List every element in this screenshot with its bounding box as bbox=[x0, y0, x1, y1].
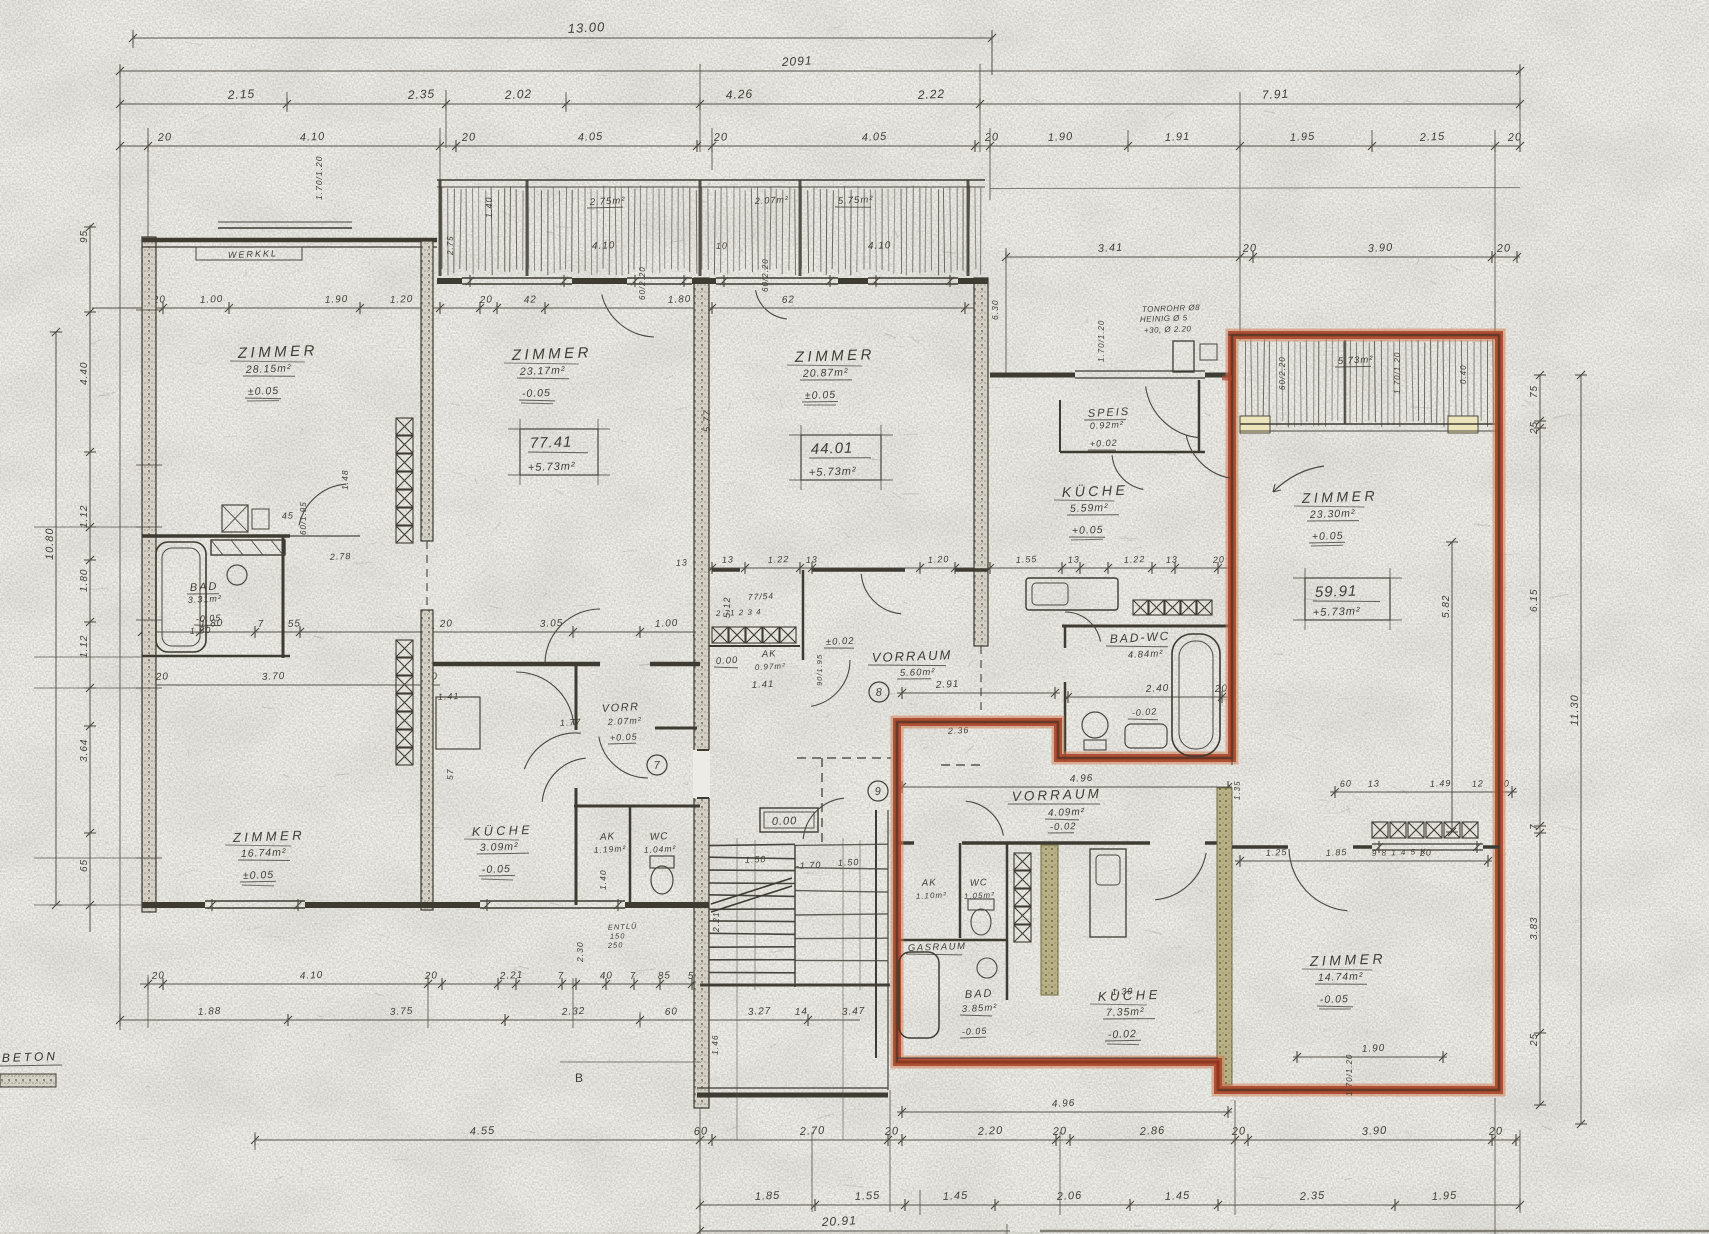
svg-text:1.50: 1.50 bbox=[745, 854, 767, 865]
svg-text:20: 20 bbox=[155, 671, 170, 683]
svg-text:1.90: 1.90 bbox=[325, 294, 349, 306]
svg-text:2.15: 2.15 bbox=[1419, 131, 1446, 144]
olive wall between BAD and KUECHE bbox=[1041, 845, 1058, 995]
olive wall left of bottom ZIMMER bbox=[1217, 788, 1232, 1085]
interior dim row y690 (2.91) bbox=[897, 692, 1060, 694]
svg-text:1.00: 1.00 bbox=[655, 618, 679, 630]
wall x975 vertical bbox=[974, 278, 988, 646]
dashed removed walls bbox=[797, 757, 891, 759]
svg-text:+30, Ø 2.20: +30, Ø 2.20 bbox=[1144, 324, 1192, 335]
svg-text:6.15: 6.15 bbox=[1529, 589, 1540, 612]
svg-text:±0.05: ±0.05 bbox=[248, 385, 280, 398]
red top small jog bbox=[1222, 376, 1232, 381]
area box 77.41 bbox=[520, 429, 598, 475]
svg-text:-0.05: -0.05 bbox=[196, 613, 222, 624]
svg-text:SPEIS: SPEIS bbox=[1088, 406, 1131, 420]
stairwell bottom wall bbox=[697, 1093, 888, 1098]
svg-text:1.55: 1.55 bbox=[855, 1190, 881, 1203]
svg-text:1.50: 1.50 bbox=[838, 857, 860, 868]
kitchen counter right KUECHE bbox=[1026, 578, 1118, 610]
svg-text:-0.05: -0.05 bbox=[522, 387, 551, 400]
svg-text:±0.02: ±0.02 bbox=[826, 636, 855, 648]
wardrobe middle left bbox=[436, 697, 480, 749]
VORRAUM lower wall y843 with doors bbox=[897, 841, 914, 845]
staircase treads left flight bbox=[709, 844, 795, 845]
0.00 level box bbox=[760, 808, 818, 832]
svg-text:2.21: 2.21 bbox=[711, 911, 721, 933]
left wall window ticks bbox=[136, 309, 162, 311]
bottom overall 20.91 bbox=[700, 1230, 1010, 1232]
svg-text:1.19m²: 1.19m² bbox=[594, 843, 627, 855]
svg-text:1.80: 1.80 bbox=[79, 569, 90, 592]
svg-text:3.05: 3.05 bbox=[540, 618, 564, 630]
svg-text:13: 13 bbox=[722, 554, 735, 565]
circled number 9 bbox=[868, 781, 888, 801]
svg-text:13.00: 13.00 bbox=[567, 19, 605, 36]
area box 59.91 bbox=[1305, 578, 1390, 620]
svg-text:BETON: BETON bbox=[2, 1049, 59, 1065]
svg-text:2.78: 2.78 bbox=[329, 551, 352, 562]
stairwell wall x697 vertical bbox=[694, 278, 709, 1108]
svg-text:6.30: 6.30 bbox=[990, 299, 1000, 320]
left lower apartment partition x576 bbox=[575, 664, 578, 730]
kitchen counters middle flat bbox=[1090, 849, 1126, 937]
top dimension line 13.00 bbox=[133, 37, 992, 39]
left extension lines bbox=[34, 526, 142, 528]
svg-text:3.90: 3.90 bbox=[1362, 1125, 1388, 1138]
svg-text:1.22: 1.22 bbox=[768, 554, 790, 565]
svg-text:1.10m²: 1.10m² bbox=[916, 890, 947, 901]
curved arrow balcony right bbox=[1273, 466, 1324, 492]
svg-text:±0.05: ±0.05 bbox=[805, 389, 837, 402]
staircase construction verticals bbox=[736, 838, 738, 1140]
svg-text:40: 40 bbox=[600, 970, 614, 982]
svg-text:5.82: 5.82 bbox=[1441, 595, 1452, 618]
top dimension line 20.91 bbox=[120, 70, 1520, 72]
window top-left with closet WERKKL bbox=[218, 227, 352, 229]
svg-text:-0.02: -0.02 bbox=[1131, 706, 1157, 718]
svg-text:VORR: VORR bbox=[602, 701, 640, 715]
svg-text:1.45: 1.45 bbox=[1165, 1190, 1191, 1203]
svg-text:62: 62 bbox=[782, 294, 796, 306]
exterior wall left bbox=[142, 237, 156, 912]
dim 1.90 bottom zimmer bbox=[1293, 1056, 1447, 1058]
svg-text:ZIMMER: ZIMMER bbox=[232, 827, 306, 845]
svg-text:1.95: 1.95 bbox=[1432, 1190, 1458, 1203]
svg-text:95: 95 bbox=[79, 230, 90, 243]
thin wall right of stairs bbox=[875, 810, 877, 1058]
bottom dim row 20 4.10 20 2.21 7 40 7 85 5 bbox=[140, 983, 706, 985]
svg-text:4.55: 4.55 bbox=[470, 1125, 496, 1138]
svg-text:4.10: 4.10 bbox=[592, 240, 616, 252]
chimney rects bbox=[1173, 341, 1194, 372]
svg-text:0.00: 0.00 bbox=[772, 815, 798, 828]
dim 2.40 in BAD-WC bbox=[1065, 696, 1228, 698]
svg-text:BAD: BAD bbox=[965, 988, 994, 1001]
svg-text:1.45: 1.45 bbox=[943, 1190, 969, 1203]
svg-text:7: 7 bbox=[558, 971, 565, 982]
balcony top: railing bbox=[437, 179, 985, 181]
svg-text:1.05m²: 1.05m² bbox=[964, 890, 995, 901]
svg-text:20: 20 bbox=[1052, 1125, 1068, 1138]
svg-text:2.15: 2.15 bbox=[226, 87, 255, 102]
kitchen sink left apartment bbox=[211, 540, 285, 555]
svg-text:ZIMMER: ZIMMER bbox=[237, 342, 319, 362]
svg-text:ZIMMER: ZIMMER bbox=[511, 344, 593, 364]
washbasin BAD middle flat bbox=[977, 958, 997, 978]
dim row y861 bottom right bbox=[1235, 860, 1492, 862]
svg-text:1.70/1.20: 1.70/1.20 bbox=[1393, 352, 1402, 394]
svg-text:60/2.20: 60/2.20 bbox=[1278, 356, 1287, 390]
black wall edges over red bbox=[1231, 335, 1233, 765]
svg-text:20: 20 bbox=[479, 294, 494, 306]
top wall mid (under balcony) with windows bbox=[437, 278, 462, 284]
svg-text:2.35: 2.35 bbox=[406, 87, 435, 102]
svg-text:7: 7 bbox=[630, 971, 637, 982]
svg-text:2.20: 2.20 bbox=[977, 1125, 1004, 1138]
svg-text:±0.05: ±0.05 bbox=[243, 869, 275, 882]
bottom dim row 1.85 1.55 1.45 2.06 1.45 2.35 1.95 bbox=[700, 1204, 1520, 1206]
vertical connector lines top bbox=[119, 64, 121, 1030]
bottom dim row 1.88 3.75 2.32 60 3.27 14 3.47 bbox=[120, 1019, 860, 1021]
svg-text:5.73m²: 5.73m² bbox=[1338, 354, 1374, 367]
svg-text:77.41: 77.41 bbox=[530, 434, 573, 452]
svg-text:GASRAUM: GASRAUM bbox=[908, 941, 967, 954]
left dimension line 10.80 bbox=[55, 332, 57, 905]
interior dim row y632 bbox=[142, 631, 700, 633]
circled number 7 bbox=[647, 755, 667, 775]
svg-text:3.90: 3.90 bbox=[1368, 242, 1394, 255]
svg-text:1.41: 1.41 bbox=[438, 691, 460, 702]
radiator rows bbox=[396, 418, 413, 435]
svg-text:90/1.95: 90/1.95 bbox=[815, 654, 824, 686]
svg-text:5.75m²: 5.75m² bbox=[838, 194, 874, 207]
right overall dimension 11.30 bbox=[1580, 375, 1582, 1124]
svg-text:20: 20 bbox=[151, 970, 166, 982]
interior dim row y1110 (4.96) bbox=[897, 1111, 1232, 1113]
BAD left apartment walls bbox=[142, 534, 290, 538]
closet right wall x803 bbox=[802, 570, 805, 660]
svg-text:4.05: 4.05 bbox=[862, 131, 888, 144]
svg-text:1.85: 1.85 bbox=[1326, 847, 1348, 858]
exterior wall top-left bbox=[142, 238, 437, 243]
top dimension row 4.10 4.05 4.05 1.90 1.91 1.95 2.15 bbox=[120, 145, 1520, 147]
svg-text:ZIMMER: ZIMMER bbox=[1301, 487, 1379, 506]
svg-text:AK: AK bbox=[761, 648, 777, 660]
radiator column middle flat bbox=[1014, 853, 1031, 870]
svg-text:65: 65 bbox=[79, 859, 90, 872]
svg-text:57: 57 bbox=[445, 769, 455, 780]
svg-text:20: 20 bbox=[461, 131, 477, 144]
svg-text:2.75: 2.75 bbox=[446, 235, 455, 256]
staircase treads right flight bbox=[795, 844, 888, 845]
svg-text:3.70: 3.70 bbox=[262, 671, 286, 683]
svg-text:HEINIG Ø 5: HEINIG Ø 5 bbox=[1140, 313, 1188, 324]
door gap in stairwell wall (flat 7 entry) bbox=[693, 750, 710, 798]
interior dim row y311: 20 1.00 1.90 1.20 20 42 1.80 62 bbox=[92, 307, 980, 309]
svg-text:20: 20 bbox=[424, 970, 439, 982]
svg-text:13: 13 bbox=[676, 557, 689, 568]
svg-text:4.40: 4.40 bbox=[79, 362, 90, 385]
svg-text:9 8 1 4 5 K: 9 8 1 4 5 K bbox=[1372, 847, 1427, 858]
svg-text:1.40: 1.40 bbox=[598, 869, 608, 890]
bathtub middle flat bbox=[899, 952, 939, 1038]
interior dim row y787 (4.96) bbox=[897, 786, 1232, 788]
middle zimmer bottom wall bbox=[433, 662, 600, 667]
svg-text:1.91: 1.91 bbox=[1165, 131, 1191, 144]
svg-text:20: 20 bbox=[713, 131, 729, 144]
svg-text:1.85: 1.85 bbox=[755, 1190, 781, 1203]
BAD-WC walls bbox=[1062, 625, 1230, 628]
svg-text:1.46: 1.46 bbox=[710, 1034, 720, 1055]
bottom vertical connectors bbox=[254, 1132, 256, 1150]
corridor stub wall y728 bbox=[655, 727, 697, 730]
svg-text:2.30: 2.30 bbox=[575, 941, 585, 963]
svg-text:7: 7 bbox=[258, 619, 265, 630]
svg-text:1.12: 1.12 bbox=[79, 505, 90, 528]
svg-text:5.59m²: 5.59m² bbox=[1070, 502, 1109, 515]
svg-text:77/54: 77/54 bbox=[748, 591, 775, 602]
svg-text:9: 9 bbox=[874, 786, 881, 798]
svg-text:0.40: 0.40 bbox=[1459, 364, 1468, 384]
svg-text:13: 13 bbox=[1368, 778, 1381, 789]
balcony top-right: hatch bbox=[1244, 341, 1246, 421]
svg-text:1.70/1.20: 1.70/1.20 bbox=[1097, 320, 1106, 362]
washbasin left BAD bbox=[227, 565, 247, 585]
svg-text:20: 20 bbox=[157, 131, 173, 144]
top dimension row 2.15 2.35 2.02 4.26 2.22 7.91 bbox=[120, 103, 1520, 105]
svg-text:12: 12 bbox=[1472, 778, 1485, 789]
svg-text:0.00: 0.00 bbox=[716, 655, 739, 667]
svg-text:1.70/1.20: 1.70/1.20 bbox=[1345, 1054, 1354, 1096]
svg-text:BAD: BAD bbox=[190, 581, 219, 594]
svg-text:+5.73m²: +5.73m² bbox=[1313, 605, 1361, 619]
svg-text:20: 20 bbox=[884, 1125, 900, 1138]
svg-text:20: 20 bbox=[439, 618, 454, 630]
svg-text:1.40: 1.40 bbox=[484, 196, 494, 218]
svg-text:5.77: 5.77 bbox=[702, 410, 713, 433]
svg-text:7.91: 7.91 bbox=[1261, 87, 1289, 102]
door arcs bbox=[545, 609, 600, 664]
svg-text:B: B bbox=[575, 1071, 583, 1085]
svg-text:20: 20 bbox=[1231, 1125, 1247, 1138]
svg-text:AK: AK bbox=[921, 877, 937, 889]
svg-text:+5.73m²: +5.73m² bbox=[809, 465, 857, 479]
svg-text:25: 25 bbox=[1529, 1033, 1540, 1047]
svg-text:13: 13 bbox=[1068, 554, 1081, 565]
dim row y790 right (60 13 1.49 12 20) bbox=[1330, 791, 1517, 793]
svg-text:1.20: 1.20 bbox=[390, 294, 414, 306]
secondary right dim line bbox=[990, 187, 1520, 190]
svg-text:42: 42 bbox=[524, 294, 538, 306]
small closet squares left apartment bbox=[222, 505, 248, 532]
svg-text:7: 7 bbox=[1529, 823, 1540, 830]
svg-text:-0.05: -0.05 bbox=[1320, 993, 1349, 1006]
svg-text:250: 250 bbox=[607, 940, 624, 950]
svg-text:+0.05: +0.05 bbox=[1312, 530, 1344, 543]
toilet BAD-WC right bbox=[1082, 712, 1108, 738]
interior dim row y568 bbox=[697, 567, 1232, 569]
svg-text:ZIMMER: ZIMMER bbox=[1309, 950, 1387, 969]
svg-text:5.60m²: 5.60m² bbox=[900, 667, 936, 679]
corridor wall y570 with doors bbox=[712, 568, 740, 572]
svg-text:11.30: 11.30 bbox=[1569, 694, 1581, 726]
svg-text:1.77: 1.77 bbox=[560, 717, 582, 728]
red highlighted apartment outline: mid bbox=[897, 335, 1499, 1090]
red highlighted apartment outline: core bbox=[897, 335, 1499, 1090]
svg-text:WC: WC bbox=[970, 877, 988, 889]
svg-text:1.00: 1.00 bbox=[200, 294, 224, 306]
svg-text:1.04m²: 1.04m² bbox=[644, 843, 677, 855]
faint bottom scan edge bbox=[1040, 1230, 1709, 1233]
svg-text:44.01: 44.01 bbox=[811, 440, 854, 458]
bottom zimmer top wall bbox=[1232, 845, 1288, 849]
svg-text:5.12: 5.12 bbox=[722, 596, 732, 618]
svg-text:0.92m²: 0.92m² bbox=[1090, 419, 1124, 431]
svg-text:+0.02: +0.02 bbox=[1090, 438, 1118, 449]
svg-text:2.07m²: 2.07m² bbox=[607, 715, 642, 727]
svg-text:KÜCHE: KÜCHE bbox=[1098, 987, 1162, 1004]
svg-text:3.64: 3.64 bbox=[79, 739, 90, 762]
svg-text:4.09m²: 4.09m² bbox=[1048, 807, 1085, 819]
right upper dim row 3.41 20 3.90 20 bbox=[1006, 256, 1520, 258]
svg-text:10.80: 10.80 bbox=[44, 527, 56, 560]
svg-text:-0.05: -0.05 bbox=[962, 1026, 988, 1037]
svg-text:VORRAUM: VORRAUM bbox=[1012, 786, 1102, 804]
svg-text:3.85m²: 3.85m² bbox=[962, 1002, 998, 1015]
svg-text:60: 60 bbox=[694, 1125, 709, 1138]
svg-text:4.96: 4.96 bbox=[1052, 1098, 1076, 1110]
balcony top-right: bottom rail + yellow ends bbox=[1240, 416, 1270, 433]
svg-text:45: 45 bbox=[282, 510, 295, 521]
toilet middle flat bbox=[968, 899, 994, 910]
svg-text:1.80: 1.80 bbox=[668, 294, 692, 306]
svg-text:4.26: 4.26 bbox=[725, 87, 753, 102]
svg-text:4.84m²: 4.84m² bbox=[1128, 648, 1164, 661]
area box 44.01 bbox=[801, 435, 881, 480]
svg-text:23.17m²: 23.17m² bbox=[519, 364, 566, 378]
left dimension column 95 4.40 1.12 1.80 1.12 3.64 65 bbox=[89, 225, 91, 932]
svg-text:25: 25 bbox=[1529, 421, 1540, 435]
staircase landing edge bbox=[700, 984, 890, 987]
svg-text:3.47: 3.47 bbox=[842, 1006, 866, 1018]
svg-text:1.70/1.20: 1.70/1.20 bbox=[314, 156, 324, 200]
svg-text:55: 55 bbox=[288, 618, 302, 630]
bathtub BAD-WC right bbox=[1172, 634, 1220, 756]
interior dim row y685 bbox=[142, 684, 440, 686]
svg-text:1.55: 1.55 bbox=[1016, 554, 1038, 565]
svg-text:60/2.20: 60/2.20 bbox=[638, 266, 647, 300]
svg-text:16.74m²: 16.74m² bbox=[241, 846, 287, 860]
svg-text:20: 20 bbox=[1242, 242, 1258, 255]
svg-text:3.41: 3.41 bbox=[1098, 242, 1124, 255]
svg-text:2.35: 2.35 bbox=[1299, 1190, 1326, 1203]
svg-text:KÜCHE: KÜCHE bbox=[1062, 481, 1129, 500]
svg-text:2.91: 2.91 bbox=[935, 679, 960, 691]
bathtub left BAD bbox=[156, 542, 206, 652]
svg-text:2.07m²: 2.07m² bbox=[754, 194, 789, 206]
washbasin BAD-WC right bbox=[1125, 724, 1167, 748]
svg-text:0.97m²: 0.97m² bbox=[755, 661, 786, 672]
svg-text:3.75: 3.75 bbox=[390, 1006, 414, 1018]
bottom dim row 4.55 60 2.70 20 2.20 20 2.86 20 3.90 20 bbox=[255, 1139, 1520, 1141]
svg-text:59.91: 59.91 bbox=[1315, 583, 1358, 601]
svg-text:85: 85 bbox=[658, 970, 672, 982]
svg-text:3.27: 3.27 bbox=[748, 1006, 772, 1018]
svg-text:1.41: 1.41 bbox=[752, 679, 775, 691]
svg-text:60/2.20: 60/2.20 bbox=[761, 258, 770, 292]
svg-text:VORRAUM: VORRAUM bbox=[872, 647, 953, 665]
svg-text:2.02: 2.02 bbox=[503, 87, 532, 102]
staircase center rail bbox=[794, 845, 796, 987]
svg-text:2.86: 2.86 bbox=[1139, 1125, 1166, 1138]
svg-text:60: 60 bbox=[665, 1006, 679, 1018]
svg-text:1.22: 1.22 bbox=[1124, 554, 1146, 565]
staircase break slash bbox=[711, 878, 792, 912]
interior wall x427 vertical bbox=[421, 241, 433, 541]
svg-text:AK: AK bbox=[599, 831, 616, 843]
svg-text:2.22: 2.22 bbox=[916, 87, 945, 102]
svg-text:75: 75 bbox=[1529, 385, 1540, 398]
svg-text:1.95: 1.95 bbox=[1290, 131, 1316, 144]
svg-text:-0.02: -0.02 bbox=[1050, 821, 1077, 833]
svg-text:1.12: 1.12 bbox=[79, 635, 90, 658]
partitions in lower middle flat bbox=[959, 843, 962, 938]
svg-text:+0.05: +0.05 bbox=[1072, 524, 1104, 537]
svg-text:2.40: 2.40 bbox=[1145, 683, 1170, 695]
closet bottom y646 bbox=[709, 645, 800, 647]
svg-text:KÜCHE: KÜCHE bbox=[472, 823, 534, 839]
svg-text:7.35m²: 7.35m² bbox=[1106, 1006, 1145, 1019]
svg-text:1.48: 1.48 bbox=[340, 469, 350, 490]
svg-text:-0.02: -0.02 bbox=[1108, 1028, 1137, 1041]
SPEIS walls bbox=[1060, 451, 1205, 454]
svg-text:3.83: 3.83 bbox=[1529, 917, 1540, 940]
svg-text:4.10: 4.10 bbox=[300, 131, 326, 144]
svg-text:WERKKL: WERKKL bbox=[228, 248, 278, 260]
balcony top: posts bbox=[439, 180, 442, 276]
svg-text:23.30m²: 23.30m² bbox=[1309, 507, 1356, 521]
svg-text:1.88: 1.88 bbox=[198, 1006, 222, 1018]
WC toilet left apartment bbox=[650, 856, 674, 868]
svg-text:20.91: 20.91 bbox=[820, 1213, 857, 1229]
svg-text:3.09m²: 3.09m² bbox=[480, 841, 519, 854]
svg-text:60: 60 bbox=[1340, 778, 1353, 789]
svg-text:-1.70: -1.70 bbox=[796, 860, 822, 871]
svg-text:1.20: 1.20 bbox=[928, 554, 950, 565]
svg-text:4.10: 4.10 bbox=[868, 240, 892, 252]
AK/WC top wall bbox=[574, 805, 700, 808]
svg-text:4.05: 4.05 bbox=[578, 131, 604, 144]
svg-text:1.80: 1.80 bbox=[190, 625, 212, 636]
svg-text:WC: WC bbox=[650, 831, 669, 843]
svg-text:ZIMMER: ZIMMER bbox=[794, 346, 876, 366]
svg-text:-0.05: -0.05 bbox=[482, 863, 511, 876]
svg-text:3.31m²: 3.31m² bbox=[188, 593, 222, 605]
svg-text:14.74m²: 14.74m² bbox=[1318, 970, 1364, 984]
svg-text:10: 10 bbox=[716, 241, 728, 251]
svg-text:13: 13 bbox=[1166, 554, 1179, 565]
svg-text:+5.73m²: +5.73m² bbox=[528, 460, 576, 474]
interior vertical dim 5.82 bbox=[1451, 542, 1453, 832]
svg-text:60/1.95: 60/1.95 bbox=[299, 501, 308, 535]
bottom exterior wall left apartment bbox=[142, 902, 205, 908]
svg-text:1.35: 1.35 bbox=[1233, 780, 1242, 800]
red highlighted apartment outline: fringe bbox=[897, 335, 1499, 1090]
svg-text:13: 13 bbox=[806, 554, 819, 565]
svg-text:1.90: 1.90 bbox=[1362, 1043, 1386, 1055]
svg-text:20.87m²: 20.87m² bbox=[802, 366, 849, 380]
